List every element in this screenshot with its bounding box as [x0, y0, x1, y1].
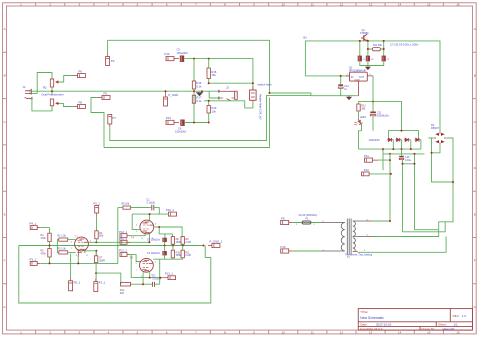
- svg-text:B+: B+: [304, 35, 308, 39]
- node: [269, 92, 271, 94]
- wire heater rail upper: [110, 95, 311, 140]
- wire top bus: [108, 40, 359, 95]
- node: [367, 40, 369, 42]
- svg-text:Header-Male-2.54_1x2: Header-Male-2.54_1x2: [259, 94, 262, 120]
- node: [401, 148, 403, 150]
- svg-text:EasyEDA V4.9.3: EasyEDA V4.9.3: [360, 327, 383, 331]
- resistor R11: [372, 48, 380, 51]
- wire: [340, 76, 342, 96]
- connector P10b: [281, 249, 293, 253]
- diode D3: [387, 138, 393, 142]
- wire: [369, 173, 391, 175]
- svg-text:R2: R2: [43, 86, 47, 90]
- node: [193, 90, 195, 92]
- svg-text:2.2M: 2.2M: [185, 254, 190, 257]
- bridge rectifier D2: [434, 132, 446, 145]
- svg-text:P10: P10: [165, 52, 170, 56]
- svg-text:11: 11: [311, 3, 314, 7]
- node: [49, 262, 51, 264]
- wire: [360, 41, 384, 56]
- svg-text:C3 100u16v: C3 100u16v: [147, 252, 161, 255]
- svg-text:J1: J1: [23, 85, 26, 89]
- svg-text:2.2M: 2.2M: [185, 241, 190, 244]
- svg-text:Dual Potentiometer: Dual Potentiometer: [42, 92, 64, 96]
- svg-text:J2: J2: [226, 86, 229, 90]
- svg-text:10000u16v: 10000u16v: [377, 114, 390, 117]
- svg-text:16: 16: [456, 3, 460, 7]
- wire: [32, 73, 53, 94]
- connector P3: [106, 54, 110, 66]
- node: [410, 148, 412, 150]
- wire B+: [305, 41, 440, 132]
- wire: [52, 103, 74, 111]
- node: [208, 122, 210, 124]
- node: [392, 148, 394, 150]
- wire: [96, 217, 98, 231]
- svg-text:5.1k: 5.1k: [197, 84, 203, 88]
- connector P5: [98, 96, 110, 100]
- wire anode top: [154, 227, 182, 238]
- resistor R7: [94, 256, 97, 263]
- jack J1: [25, 89, 32, 100]
- svg-text:P3: P3: [111, 59, 115, 63]
- svg-text:C4 100u16v: C4 100u16v: [147, 239, 161, 242]
- capacitor C5: [180, 56, 184, 62]
- svg-text:10k: 10k: [212, 109, 217, 113]
- tube V1: [75, 237, 89, 257]
- svg-text:F: F: [474, 259, 476, 263]
- connector P6: [74, 74, 86, 78]
- wire: [391, 138, 453, 237]
- svg-text:12: 12: [340, 3, 344, 7]
- node: [431, 152, 433, 154]
- wire: [193, 59, 195, 123]
- wire ground loop: [19, 246, 211, 304]
- wire: [293, 222, 322, 224]
- connector P7: [108, 115, 112, 128]
- connector P12b: [362, 172, 370, 176]
- wire: [403, 154, 446, 232]
- resistor R12b: [121, 282, 131, 286]
- svg-text:KT888A: KT888A: [360, 32, 369, 35]
- resistor R17: [192, 95, 195, 103]
- svg-text:100u200v: 100u200v: [177, 51, 189, 55]
- resistor R6: [123, 206, 130, 209]
- node: [383, 48, 385, 50]
- node: [402, 163, 404, 165]
- wire: [31, 91, 219, 98]
- svg-text:16: 16: [456, 330, 460, 334]
- svg-text:470k: 470k: [41, 237, 47, 240]
- svg-text:470k: 470k: [41, 252, 47, 255]
- svg-text:15: 15: [427, 3, 431, 7]
- capacitor C13: [399, 156, 404, 160]
- resistor R2b: [59, 251, 68, 254]
- wire: [130, 255, 161, 278]
- node: [165, 90, 167, 92]
- node: [208, 58, 210, 60]
- node: [389, 159, 391, 161]
- wire: [305, 75, 349, 77]
- capacitor C10: [338, 84, 343, 88]
- wire grid line: [40, 208, 118, 264]
- wire heater lower rails: [359, 149, 425, 154]
- svg-text:14: 14: [398, 3, 402, 7]
- svg-text:10: 10: [282, 3, 286, 7]
- node: [367, 48, 369, 50]
- wire sleeve: [204, 101, 253, 108]
- wire: [185, 59, 253, 90]
- svg-text:15: 15: [427, 330, 431, 334]
- wire: [130, 208, 168, 230]
- node: [208, 100, 210, 102]
- node: [390, 173, 392, 175]
- node: [452, 181, 454, 183]
- svg-text:TITLE:: TITLE:: [360, 310, 368, 314]
- svg-text:P12: P12: [364, 168, 369, 172]
- node: [193, 122, 195, 124]
- svg-text:P7: P7: [113, 116, 117, 120]
- svg-text:13: 13: [369, 3, 373, 7]
- wire: [96, 273, 121, 284]
- wire: [95, 251, 97, 282]
- resistor R11b: [181, 250, 184, 258]
- wire: [359, 102, 374, 119]
- svg-text:IN: IN: [351, 76, 354, 79]
- svg-text:1/1: 1/1: [454, 323, 459, 327]
- wire: [107, 40, 109, 53]
- svg-text:Transformer_Two_winding: Transformer_Two_winding: [345, 253, 373, 256]
- diode D6: [415, 138, 421, 142]
- tube V3: [140, 258, 154, 272]
- node: [158, 226, 160, 228]
- potentiometer R2 upper: [50, 79, 59, 87]
- node: [142, 283, 144, 285]
- node: [172, 245, 174, 247]
- resistor R8: [171, 237, 174, 245]
- svg-text:DB107: DB107: [431, 126, 439, 130]
- wire anode rail: [89, 241, 150, 243]
- wire: [209, 59, 253, 106]
- connector P_GND_1: [208, 244, 220, 248]
- svg-text:560R: 560R: [99, 259, 105, 262]
- node: [95, 272, 97, 274]
- svg-text:OUT: OUT: [359, 76, 365, 79]
- resistor R3: [48, 233, 51, 241]
- connector P11: [365, 158, 379, 162]
- svg-text:P5_1: P5_1: [74, 281, 81, 285]
- wire heater top rail: [389, 131, 419, 140]
- capacitor C6: [180, 120, 184, 126]
- node: [203, 245, 205, 247]
- connector P11_1: [120, 240, 130, 244]
- wire: [393, 140, 421, 149]
- wire: [208, 113, 210, 123]
- node: [401, 130, 403, 132]
- capacitor C11: [370, 112, 376, 116]
- potentiometer R2 lower: [50, 99, 59, 106]
- svg-text:P13: P13: [166, 116, 171, 120]
- node: [95, 241, 97, 243]
- wire: [131, 259, 160, 284]
- wire: [40, 228, 49, 234]
- wire: [91, 98, 104, 148]
- header P2 switch: [250, 87, 257, 103]
- svg-text:14: 14: [398, 330, 402, 334]
- node: [95, 250, 97, 252]
- svg-text:Drawn By:: Drawn By:: [422, 327, 436, 331]
- node: [182, 245, 184, 247]
- wire: [358, 237, 447, 253]
- capacitor C3: [162, 251, 166, 255]
- svg-text:A: A: [4, 27, 6, 31]
- connector P12_1: [120, 234, 130, 238]
- wire: [32, 99, 52, 111]
- svg-text:1.0: 1.0: [462, 314, 467, 318]
- node: [389, 220, 391, 222]
- connector P9: [281, 220, 293, 224]
- resistor R5: [48, 249, 51, 257]
- wire: [293, 250, 322, 252]
- jack J2: [219, 90, 237, 101]
- svg-text:mikem3d: mikem3d: [442, 327, 455, 331]
- node: [149, 213, 151, 215]
- diode D4: [395, 138, 401, 142]
- svg-text:E: E: [474, 212, 476, 216]
- connector P10: [166, 57, 179, 61]
- tube V2: [140, 220, 154, 234]
- resistor R16: [192, 81, 195, 89]
- diode D5: [404, 138, 410, 142]
- svg-text:100u200v: 100u200v: [175, 130, 187, 134]
- node: [383, 40, 385, 42]
- node: [389, 153, 391, 155]
- node: [193, 58, 195, 60]
- node: [252, 82, 254, 84]
- svg-text:P_GND: P_GND: [169, 93, 179, 97]
- transistor Q1: [361, 34, 368, 41]
- resistor R10: [171, 250, 174, 258]
- svg-text:330: 330: [120, 292, 125, 295]
- resistor R4: [95, 231, 98, 239]
- wire: [57, 240, 75, 253]
- connector P6_1: [30, 226, 40, 230]
- node: [359, 40, 361, 42]
- svg-text:15k: 15k: [212, 73, 217, 77]
- wire: [383, 149, 402, 170]
- connector P8: [74, 105, 86, 109]
- connector P13: [166, 120, 179, 124]
- node: [49, 245, 51, 247]
- ground: [365, 66, 371, 71]
- capacitor C2: [153, 282, 155, 287]
- ground: [346, 96, 352, 100]
- node: [159, 277, 161, 279]
- connector P3_1: [30, 261, 40, 265]
- svg-text:F: F: [4, 259, 6, 263]
- connector P1_1: [94, 279, 98, 292]
- node: [414, 153, 416, 155]
- svg-text:1N4244N: 1N4244N: [369, 138, 380, 142]
- svg-text:P4_1: P4_1: [30, 222, 37, 226]
- wire: [130, 234, 149, 242]
- connector P10_1: [169, 212, 177, 216]
- wire: [52, 76, 74, 96]
- connector P12_2: [120, 253, 130, 257]
- node: [382, 148, 384, 150]
- node: [164, 245, 166, 247]
- wire heater rail lower: [104, 98, 270, 148]
- wire: [49, 242, 51, 249]
- wire: [165, 242, 183, 246]
- svg-text:P12_1: P12_1: [119, 230, 128, 234]
- svg-text:P8: P8: [79, 101, 83, 105]
- svg-text:P11_1: P11_1: [119, 237, 127, 241]
- wire: [118, 207, 148, 209]
- svg-text:LED1: LED1: [360, 116, 367, 119]
- svg-text:C7,C8,C9 100u x 200v: C7,C8,C9 100u x 200v: [390, 43, 419, 47]
- svg-text:B: B: [4, 74, 6, 78]
- svg-text:P1_1: P1_1: [99, 281, 106, 285]
- wire: [185, 122, 209, 124]
- node pot junction: [51, 90, 53, 92]
- capacitor C7: [358, 56, 362, 62]
- svg-text:P13_1: P13_1: [165, 272, 174, 276]
- svg-text:P_GND_1: P_GND_1: [210, 239, 223, 243]
- capacitor C1: [152, 205, 154, 211]
- wire: [96, 239, 98, 243]
- svg-text:GND: GND: [355, 79, 361, 82]
- node: [372, 101, 374, 103]
- svg-text:5.1k: 5.1k: [197, 99, 203, 103]
- svg-text:B: B: [474, 74, 476, 78]
- connector P5_1: [69, 278, 73, 291]
- wire: [359, 102, 374, 150]
- wire: [70, 254, 72, 278]
- title block: [358, 309, 472, 331]
- LED LED1: [352, 118, 363, 129]
- svg-text:0.01u: 0.01u: [405, 159, 412, 162]
- svg-text:R1 1.5k: R1 1.5k: [58, 235, 67, 238]
- svg-text:P10_1: P10_1: [166, 208, 175, 212]
- capacitor C9: [382, 56, 386, 62]
- wire cathode: [78, 251, 96, 264]
- connector P_GND: [164, 91, 168, 106]
- wire: [378, 154, 390, 221]
- wire: [360, 62, 384, 66]
- node: [149, 277, 151, 279]
- svg-text:New Schematic: New Schematic: [360, 316, 384, 320]
- resistor R18: [207, 68, 210, 79]
- svg-text:13: 13: [369, 330, 373, 334]
- wire: [153, 246, 182, 260]
- svg-text:P6: P6: [79, 70, 83, 74]
- svg-text:R11 39k: R11 39k: [373, 44, 383, 47]
- svg-text:P5: P5: [104, 91, 108, 95]
- node: [201, 90, 203, 92]
- svg-text:E: E: [4, 212, 6, 216]
- svg-text:P11: P11: [364, 154, 369, 158]
- svg-text:switch here: switch here: [258, 83, 273, 87]
- svg-text:R2 1.5k: R2 1.5k: [58, 248, 67, 251]
- connector P13_1: [161, 276, 176, 280]
- ground flag on wire: [196, 92, 204, 96]
- resistor R9: [181, 237, 184, 245]
- resistor R19: [207, 106, 210, 114]
- svg-text:P3_1: P3_1: [30, 257, 37, 261]
- node: [148, 241, 150, 243]
- transformer T1: [322, 219, 373, 255]
- svg-text:P9: P9: [281, 216, 285, 220]
- wire ground rail: [19, 245, 204, 247]
- resistor R12: [357, 104, 360, 111]
- node: [414, 163, 416, 165]
- capacitor C4: [162, 238, 166, 242]
- wire: [373, 220, 391, 222]
- node: [77, 262, 79, 264]
- wire: [49, 257, 51, 263]
- node: [340, 75, 342, 77]
- regulator U2: [346, 72, 373, 96]
- svg-text:P2_1: P2_1: [94, 201, 101, 205]
- svg-text:R6 10k: R6 10k: [122, 203, 130, 206]
- wire: [373, 76, 402, 131]
- fuse F1: [302, 221, 311, 224]
- svg-text:SPX1086M-NF: SPX1086M-NF: [349, 69, 367, 73]
- wire: [373, 236, 392, 238]
- svg-text:0.1u63v: 0.1u63v: [147, 201, 156, 204]
- svg-text:P12_2: P12_2: [119, 249, 128, 253]
- node: [208, 82, 210, 84]
- resistor R1: [59, 238, 68, 241]
- svg-text:11: 11: [311, 330, 314, 334]
- svg-text:A: A: [474, 27, 476, 31]
- connector P4_1: [95, 206, 99, 217]
- svg-text:12: 12: [340, 330, 344, 334]
- svg-text:10: 10: [282, 330, 286, 334]
- svg-text:REV:: REV:: [453, 314, 460, 318]
- capacitor C8: [366, 56, 370, 62]
- svg-text:P10: P10: [281, 245, 286, 249]
